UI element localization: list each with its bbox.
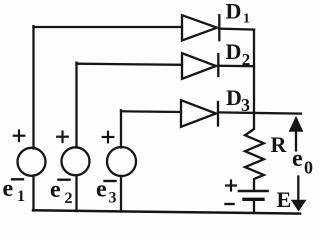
resistor R [245, 113, 264, 190]
arrow e0 up [289, 117, 302, 151]
wire e3 bottom lead [120, 176, 122, 212]
source e1 plus [14, 131, 25, 142]
diode D2 [182, 53, 218, 79]
battery plus [226, 181, 236, 191]
diode D1 [182, 15, 219, 40]
source e3 circle [107, 147, 136, 176]
svg-text:3: 3 [241, 95, 250, 115]
battery minus [226, 203, 234, 205]
svg-text:R: R [271, 132, 288, 157]
source e2 plus [57, 132, 68, 143]
wire left vertical e1 top lead [32, 26, 34, 149]
source e1 circle [18, 148, 46, 176]
source e3 plus [103, 132, 114, 143]
svg-text:3: 3 [109, 189, 117, 206]
arrow e0 down [292, 177, 306, 211]
wire D2 output joining right column [218, 65, 254, 68]
svg-text:2: 2 [242, 50, 251, 69]
wire e1 bottom lead [32, 176, 34, 211]
wire e3 horizontal to D3 [121, 110, 181, 113]
source e2 circle [62, 147, 90, 175]
svg-text:D: D [226, 39, 242, 64]
wire D1 output to right column [219, 29, 254, 30]
source e1 minus [12, 178, 23, 180]
svg-text:0: 0 [304, 158, 313, 178]
wire e3 vertical top lead [120, 110, 122, 147]
svg-text:E: E [277, 187, 292, 212]
wire top horizontal e1 to D1 [34, 26, 183, 28]
source e2 minus [59, 178, 70, 180]
source e3 minus [105, 180, 116, 182]
svg-text:e: e [3, 176, 14, 202]
svg-text:D: D [226, 85, 242, 110]
svg-text:1: 1 [17, 188, 25, 205]
svg-text:e: e [292, 146, 303, 172]
wire e2 horizontal to D2 [77, 64, 183, 65]
svg-text:e: e [50, 177, 61, 203]
battery E plates [239, 191, 268, 199]
wire D3 output to right end [218, 112, 301, 113]
wire bottom return [33, 210, 300, 213]
svg-text:2: 2 [65, 190, 73, 207]
svg-text:e: e [96, 177, 107, 203]
svg-text:D: D [226, 0, 242, 23]
diode D3 [181, 100, 218, 127]
wire e2 bottom lead [75, 176, 77, 212]
battery lead to bottom wire [253, 201, 255, 213]
wire e2 vertical top lead [75, 63, 77, 148]
svg-text:1: 1 [243, 12, 250, 27]
wire right column vertical [253, 30, 255, 114]
